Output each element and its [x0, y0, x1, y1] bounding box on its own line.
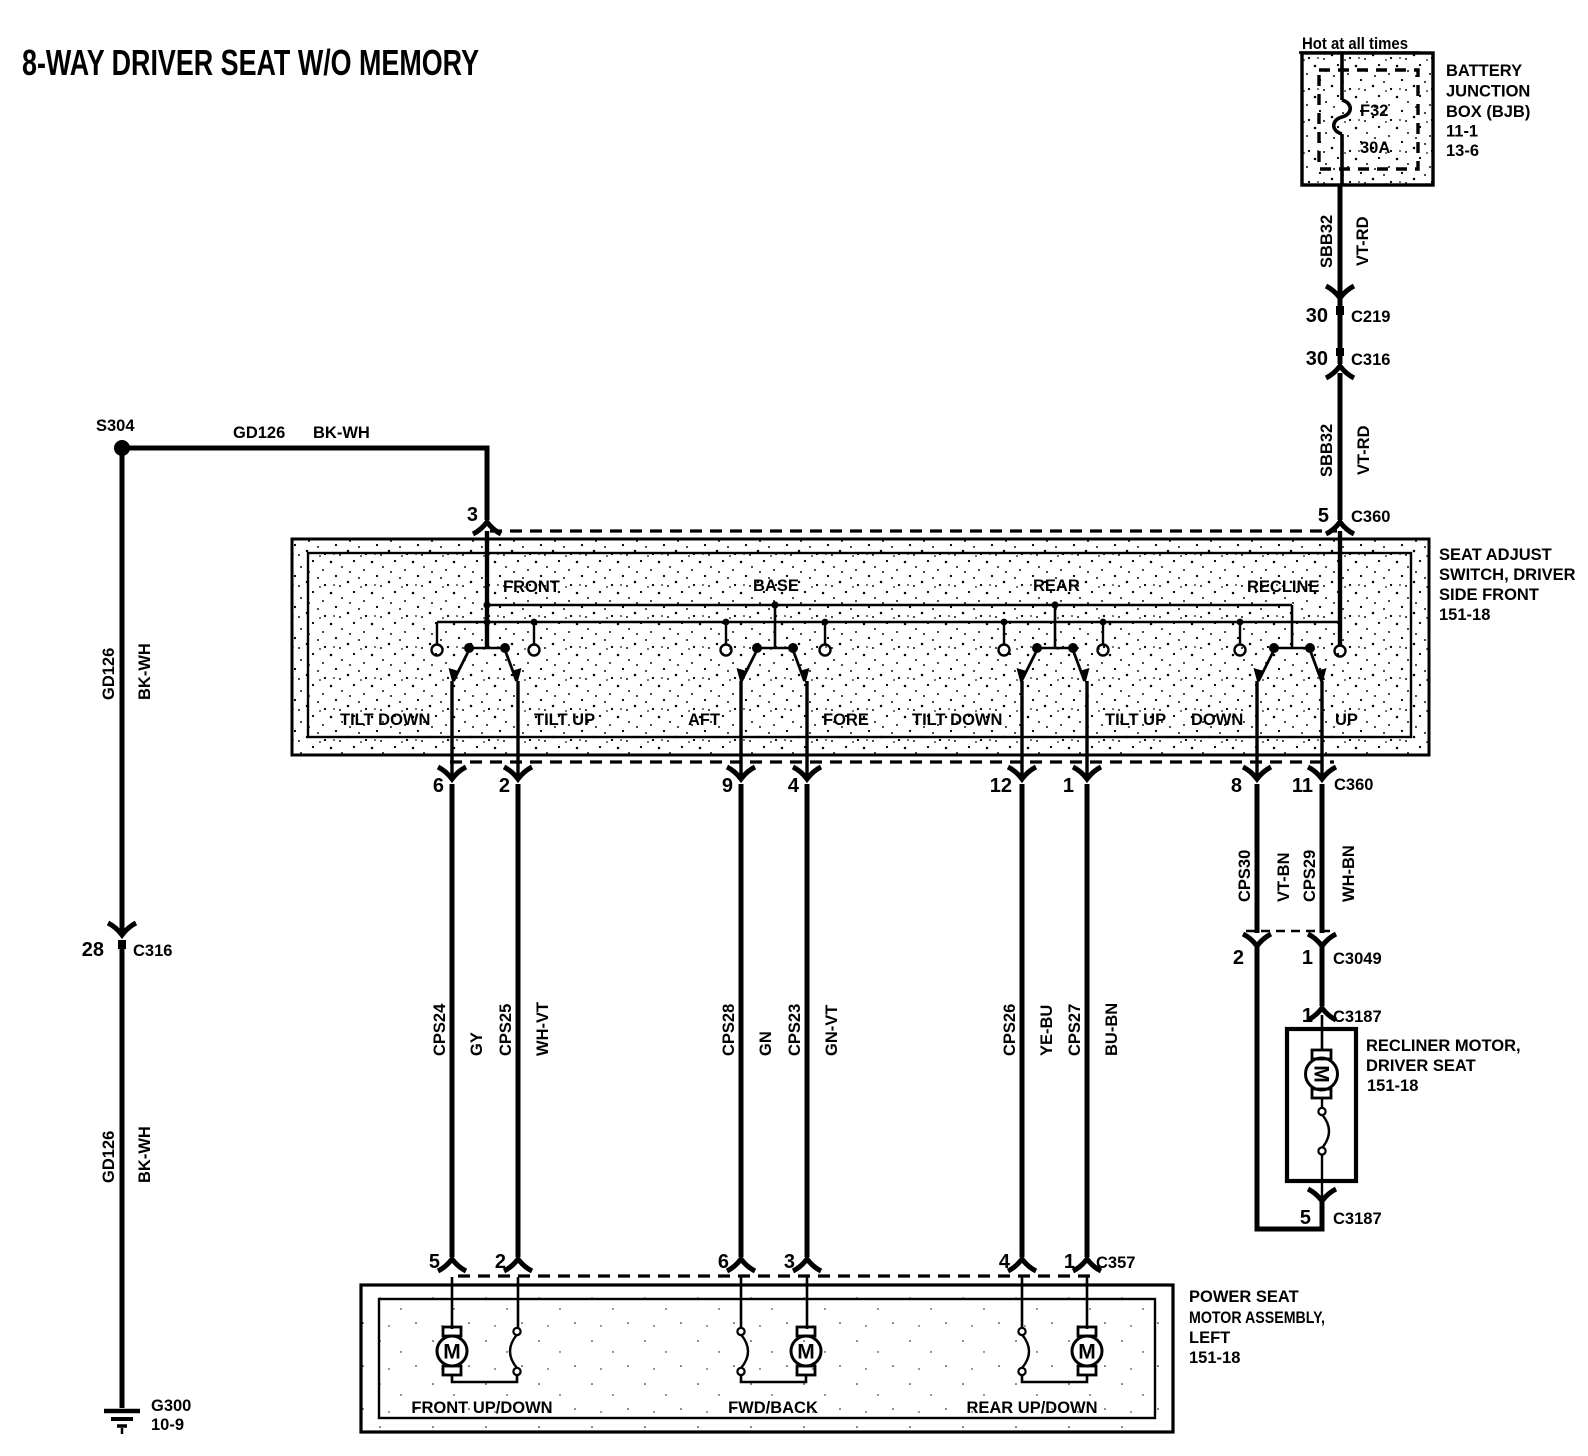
wire pin5 feed into RECLINE contact [1338, 531, 1342, 645]
svg-text:6: 6 [433, 775, 444, 797]
label G300 10-9 [151, 1397, 191, 1434]
arrow up into C3187 pin 1 [1308, 1008, 1336, 1020]
svg-text:M: M [1310, 1065, 1333, 1083]
arrow up out of C316 [1326, 366, 1354, 378]
svg-text:BU-BN: BU-BN [1103, 1003, 1121, 1056]
svg-text:11-1: 11-1 [1446, 123, 1478, 141]
seat adjust switch box outer [292, 539, 1429, 755]
wire BASE fore output (pin 4) [805, 681, 808, 777]
wire BASE aft output (pin 9) [739, 681, 742, 777]
svg-text:3: 3 [467, 504, 478, 526]
svg-text:5: 5 [429, 1251, 440, 1273]
junction feed pin3 [483, 601, 490, 608]
wire GD126 BK-WH horizontal S304 to pin3 [122, 424, 487, 520]
svg-text:C3049: C3049 [1333, 950, 1382, 968]
motor FWD/BACK [737, 1277, 821, 1382]
svg-text:VT-RD: VT-RD [1355, 425, 1373, 475]
svg-text:DOWN: DOWN [1191, 711, 1243, 729]
switch BASE [721, 601, 831, 683]
svg-text:REAR UP/DOWN: REAR UP/DOWN [966, 1399, 1097, 1417]
wire 30 C219 to C316 [1338, 298, 1343, 364]
svg-text:BASE: BASE [753, 577, 799, 595]
wire RECLINE down output (pin 8) [1255, 681, 1258, 777]
wire CPS26 YE-BU (pin12 to motor) [1020, 784, 1025, 1257]
svg-text:POWER SEAT: POWER SEAT [1189, 1288, 1299, 1306]
svg-text:2: 2 [495, 1251, 506, 1273]
wire REAR tilt-down output (pin 12) [1020, 681, 1023, 777]
svg-text:C316: C316 [133, 942, 172, 960]
wire CPS23 GN-VT (pin4 to motor) [805, 784, 810, 1257]
wire REAR tilt-up output (pin 1) [1085, 681, 1088, 777]
wire RECLINE up output (pin 11) [1320, 681, 1323, 777]
svg-text:SIDE FRONT: SIDE FRONT [1439, 586, 1539, 604]
battery junction box (BJB) [1302, 53, 1433, 185]
svg-text:FORE: FORE [823, 711, 869, 729]
svg-text:CPS24: CPS24 [431, 1003, 449, 1056]
contact bus wire [437, 621, 1340, 623]
svg-text:BATTERY: BATTERY [1446, 62, 1522, 80]
wire SBB32 VT-RD (fuse to C219) [1338, 185, 1343, 296]
wire FRONT tilt-up output (pin 2) [516, 681, 519, 777]
svg-text:TILT UP: TILT UP [1105, 711, 1166, 729]
svg-text:VT-BN: VT-BN [1275, 853, 1293, 903]
svg-text:5: 5 [1318, 505, 1329, 527]
svg-text:M: M [1078, 1341, 1096, 1364]
fuse F32 30A [1334, 53, 1391, 185]
svg-text:12: 12 [990, 775, 1012, 797]
power seat motor assembly box outer [361, 1285, 1173, 1432]
svg-text:6: 6 [718, 1251, 729, 1273]
svg-text:MOTOR ASSEMBLY,: MOTOR ASSEMBLY, [1189, 1309, 1325, 1327]
svg-text:C3187: C3187 [1333, 1210, 1382, 1228]
svg-text:CPS30: CPS30 [1236, 850, 1254, 902]
svg-text:BK-WH: BK-WH [136, 1126, 154, 1183]
svg-text:RECLINER MOTOR,: RECLINER MOTOR, [1366, 1037, 1521, 1055]
label battery junction box [1446, 62, 1530, 160]
svg-text:G300: G300 [151, 1397, 191, 1415]
svg-text:DRIVER SEAT: DRIVER SEAT [1366, 1057, 1476, 1075]
connector C219 pin 30 [1306, 305, 1391, 327]
svg-text:WH-BN: WH-BN [1340, 845, 1358, 902]
svg-text:FWD/BACK: FWD/BACK [728, 1399, 818, 1417]
wire FRONT tilt-down output (pin 6) [450, 681, 453, 777]
svg-text:LEFT: LEFT [1189, 1329, 1230, 1347]
svg-text:GD126: GD126 [100, 1131, 118, 1183]
svg-text:TILT DOWN: TILT DOWN [912, 711, 1002, 729]
svg-text:GY: GY [468, 1032, 486, 1056]
switch RECLINE [1235, 605, 1346, 683]
svg-text:GD126: GD126 [100, 648, 118, 700]
arrows into C357 [438, 1259, 1101, 1271]
svg-text:FRONT: FRONT [503, 578, 560, 596]
pin labels C3187 pin 5 [1300, 1207, 1382, 1229]
svg-text:GD126: GD126 [233, 424, 285, 442]
svg-text:1: 1 [1302, 1005, 1313, 1027]
svg-text:13-6: 13-6 [1446, 142, 1479, 160]
wire CPS25 WH-VT (pin2 to motor) [516, 784, 521, 1257]
svg-text:4: 4 [788, 775, 800, 797]
svg-text:GN-VT: GN-VT [823, 1005, 841, 1056]
svg-text:CPS28: CPS28 [720, 1004, 738, 1056]
motor FRONT UP/DOWN [437, 1277, 521, 1382]
motor recliner M [1306, 1015, 1338, 1198]
svg-text:C357: C357 [1096, 1254, 1135, 1272]
svg-text:FRONT UP/DOWN: FRONT UP/DOWN [411, 1399, 552, 1417]
connector C316 pin 28 [82, 939, 173, 961]
wire pin3 feed into FRONT switch [485, 531, 489, 648]
wire recliner motor feed (C3049 to C3187 pin1) [1320, 947, 1325, 1006]
pin labels C357 [429, 1251, 1136, 1273]
label power seat motor assembly [1189, 1288, 1325, 1367]
svg-text:C3187: C3187 [1333, 1008, 1382, 1026]
svg-text:BOX (BJB): BOX (BJB) [1446, 103, 1530, 121]
svg-text:5: 5 [1300, 1207, 1311, 1229]
svg-text:1: 1 [1063, 775, 1074, 797]
connector C3049 dashed line [1246, 930, 1331, 932]
wire CPS30 VT-BN (pin8 to C3049) [1255, 784, 1260, 933]
svg-text:9: 9 [722, 775, 733, 797]
svg-text:8-WAY DRIVER SEAT W/O MEMORY: 8-WAY DRIVER SEAT W/O MEMORY [22, 42, 479, 83]
svg-text:SEAT ADJUST: SEAT ADJUST [1439, 546, 1552, 564]
arrows out of C360 bottom [438, 767, 1336, 779]
svg-text:2: 2 [1233, 947, 1244, 969]
connector C357 dashed line [458, 1274, 1090, 1277]
svg-text:4: 4 [999, 1251, 1011, 1273]
svg-text:11: 11 [1292, 775, 1313, 797]
svg-text:CPS23: CPS23 [786, 1004, 804, 1056]
svg-text:CPS25: CPS25 [497, 1004, 515, 1056]
svg-text:28: 28 [82, 939, 104, 961]
svg-text:SBB32: SBB32 [1318, 424, 1336, 477]
pin labels C3187 pin 1 [1302, 1005, 1382, 1027]
pin labels C360 bottom [433, 775, 1374, 797]
arrow up into C360 pin 3 [473, 522, 501, 534]
wire GD126 BK-WH (C316 to G300) [120, 947, 125, 1408]
svg-text:10-9: 10-9 [151, 1416, 184, 1434]
svg-text:WH-VT: WH-VT [534, 1002, 552, 1056]
label Hot at all times [1299, 35, 1420, 53]
wire GD126 BK-WH left vertical (S304 down) [120, 448, 125, 933]
svg-text:Hot at all times: Hot at all times [1302, 35, 1408, 53]
arrow down into C219 [1326, 286, 1354, 298]
svg-text:8: 8 [1231, 775, 1242, 797]
switch REAR [999, 601, 1109, 683]
svg-text:3: 3 [784, 1251, 795, 1273]
svg-text:30: 30 [1306, 348, 1328, 370]
svg-text:151-18: 151-18 [1367, 1077, 1418, 1095]
arrow down out of C3187 pin 5 [1308, 1189, 1336, 1201]
svg-text:TILT DOWN: TILT DOWN [340, 711, 430, 729]
svg-text:AFT: AFT [688, 711, 720, 729]
svg-text:2: 2 [499, 775, 510, 797]
svg-text:SWITCH, DRIVER: SWITCH, DRIVER [1439, 566, 1576, 584]
svg-text:151-18: 151-18 [1189, 1349, 1240, 1367]
connector C360 pin 5 [1318, 505, 1391, 527]
power seat motor assembly box inner [379, 1299, 1155, 1418]
svg-text:C316: C316 [1351, 351, 1390, 369]
svg-text:YE-BU: YE-BU [1038, 1005, 1056, 1056]
label recliner motor driver seat [1366, 1037, 1521, 1095]
svg-text:UP: UP [1335, 711, 1358, 729]
svg-text:CPS26: CPS26 [1001, 1004, 1019, 1056]
svg-text:SBB32: SBB32 [1318, 215, 1336, 268]
svg-text:F32: F32 [1360, 102, 1388, 120]
wire recliner return loop [1257, 944, 1322, 1229]
wire CPS24 GY (pin6 to motor) [450, 784, 455, 1257]
svg-text:151-18: 151-18 [1439, 606, 1490, 624]
svg-text:1: 1 [1064, 1251, 1075, 1273]
pin labels C3049 [1233, 947, 1382, 969]
svg-text:30: 30 [1306, 305, 1328, 327]
junction contact bus pin3 crossing [484, 619, 491, 626]
connector C360 dashed line top [490, 529, 1337, 532]
wire CPS28 GN (pin9 to motor) [739, 784, 744, 1257]
arrows into C3049 [1243, 934, 1336, 946]
svg-text:C219: C219 [1351, 308, 1390, 326]
svg-text:VT-RD: VT-RD [1354, 216, 1372, 266]
recliner motor box [1287, 1029, 1356, 1181]
svg-text:S304: S304 [96, 417, 135, 435]
svg-text:C360: C360 [1351, 508, 1390, 526]
svg-text:M: M [797, 1341, 815, 1364]
ground G300 [104, 1411, 140, 1434]
svg-text:REAR: REAR [1033, 577, 1080, 595]
seat adjust switch box inner [308, 553, 1411, 737]
label seat adjust switch [1439, 546, 1576, 624]
svg-text:GN: GN [757, 1031, 775, 1056]
svg-text:C360: C360 [1334, 776, 1373, 794]
svg-text:CPS27: CPS27 [1066, 1004, 1084, 1056]
wire SBB32 VT-RD (C316 to C360) [1338, 373, 1343, 520]
feed bus wire [487, 604, 1292, 606]
svg-text:30A: 30A [1360, 139, 1390, 157]
svg-text:BK-WH: BK-WH [136, 643, 154, 700]
svg-text:BK-WH: BK-WH [313, 424, 370, 442]
svg-text:JUNCTION: JUNCTION [1446, 83, 1530, 101]
switch FRONT [432, 619, 540, 683]
motor REAR UP/DOWN [1018, 1277, 1102, 1382]
arrow down into C316 pin 28 [108, 923, 136, 935]
svg-text:M: M [443, 1341, 461, 1364]
svg-text:CPS29: CPS29 [1301, 850, 1319, 902]
connector C316 pin 30 [1306, 348, 1391, 370]
svg-text:TILT UP: TILT UP [534, 711, 595, 729]
svg-text:1: 1 [1302, 947, 1313, 969]
wire CPS27 BU-BN (pin1 to motor) [1085, 784, 1090, 1257]
splice S304 [96, 417, 135, 456]
wire CPS29 WH-BN (pin11 to C3049) [1320, 784, 1325, 933]
arrow up into C360 pin 5 [1326, 522, 1354, 534]
connector C360 dashed line bottom [450, 760, 1334, 763]
svg-text:RECLINE: RECLINE [1247, 578, 1319, 596]
